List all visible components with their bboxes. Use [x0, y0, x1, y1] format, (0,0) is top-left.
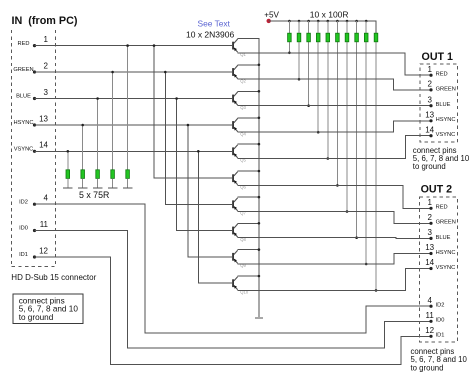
svg-text:BLUE: BLUE: [436, 102, 451, 108]
node junction input line/R13: [96, 97, 99, 100]
node junction input line/R15: [126, 44, 129, 47]
wire BLUE tap down to Q8 base: [177, 99, 233, 231]
node junction +5V bus/resistor: [365, 20, 368, 23]
node junction +5V bus/resistor: [307, 20, 310, 23]
svg-text:BLUE: BLUE: [436, 235, 451, 241]
node junction +5V bus/resistor: [346, 20, 349, 23]
wire GREEN tap down to Q7 base: [165, 72, 232, 204]
wire Q10 collector to ground rail: [238, 275, 259, 277]
wire Q8 emitter output to OUT2 pin 3 (BLUE): [238, 237, 431, 240]
svg-text:VSYNC: VSYNC: [436, 265, 456, 271]
ground (R14): [108, 187, 117, 189]
node junction +5V bus/resistor: [327, 20, 330, 23]
transistor Q9 2N3906 PNP: [232, 250, 246, 268]
svg-text:2: 2: [44, 61, 49, 70]
svg-text:1: 1: [427, 65, 432, 74]
svg-text:IN (from PC): IN (from PC): [12, 15, 78, 27]
node junction R6/output line: [336, 184, 339, 187]
svg-text:3: 3: [427, 95, 432, 104]
wire GREEN input from IN pin 2 to Q base: [35, 71, 233, 73]
svg-text:3: 3: [44, 88, 49, 97]
node junction +5V bus/resistor: [288, 20, 291, 23]
resistor R1 100R: [288, 21, 292, 53]
resistor R10 100R: [374, 33, 378, 290]
connector OUT 1 dashed outline: [420, 64, 458, 142]
resistor R6 100R: [336, 21, 340, 185]
svg-text:to ground: to ground: [19, 313, 54, 322]
svg-text:10 x 2N3906: 10 x 2N3906: [186, 29, 234, 39]
svg-text:GREEN: GREEN: [436, 220, 456, 226]
wire Q8 collector to ground rail: [238, 222, 259, 224]
node junction HSYNC/tap: [187, 124, 190, 127]
svg-text:3: 3: [427, 228, 432, 237]
node junction input line/R11: [67, 150, 70, 153]
svg-text:BLUE: BLUE: [16, 94, 31, 100]
svg-text:VSYNC: VSYNC: [14, 147, 34, 153]
wire Q10 emitter output to OUT2 pin 14 (VSYNC): [238, 269, 431, 291]
resistor R15 75R termination: [126, 46, 130, 188]
node junction rail/Q7 collector: [258, 196, 261, 199]
svg-text:ID1: ID1: [436, 333, 445, 339]
resistor R7 100R: [345, 21, 349, 212]
svg-text:RED: RED: [436, 72, 448, 78]
wire ID0 net: IN pin 11 to OUT2 pin 11: [35, 231, 432, 349]
svg-text:See Text: See Text: [198, 19, 231, 29]
svg-text:ID0: ID0: [19, 226, 28, 232]
svg-text:HSYNC: HSYNC: [14, 120, 34, 126]
wire Q4 collector to ground rail: [238, 117, 259, 119]
wire Q3 emitter output to OUT1 pin 3 (BLUE): [238, 105, 431, 107]
resistor R5 100R: [326, 21, 330, 159]
svg-text:to ground: to ground: [413, 162, 446, 171]
svg-text:RED: RED: [436, 205, 448, 211]
transistor Q8 2N3906 PNP: [232, 224, 246, 242]
ground (rail): [255, 317, 263, 319]
wire Q2 collector to ground rail: [238, 64, 259, 66]
svg-text:2: 2: [427, 213, 432, 222]
resistor R13 75R termination: [96, 99, 100, 189]
node junction +5V bus/resistor: [355, 20, 358, 23]
svg-text:GREEN: GREEN: [13, 67, 33, 73]
wire Q1 collector to ground rail (rail top corner): [238, 38, 259, 317]
wire VSYNC input from IN pin 14 to Q base: [35, 150, 233, 152]
node junction R8/output line: [355, 236, 358, 239]
svg-text:11: 11: [426, 311, 435, 320]
resistor R2 100R: [297, 21, 301, 79]
svg-text:10 x 100R: 10 x 100R: [310, 10, 349, 20]
resistor R11 75R termination: [66, 151, 70, 188]
wire Q4 emitter output to OUT1 pin 13 (HSYNC): [238, 121, 431, 132]
node junction R1/output line: [288, 52, 291, 55]
transistor Q10 2N3906 PNP: [232, 277, 249, 295]
node junction R4/output line: [317, 131, 320, 134]
wire Q1 emitter output to OUT1 pin 1 (RED): [238, 53, 431, 75]
node junction rail/Q5 collector: [258, 143, 261, 146]
wire Q7 emitter output to OUT2 pin 2 (GREEN): [238, 212, 431, 224]
node junction rail/Q10 collector: [258, 275, 261, 278]
connector J1 IN HD D-Sub 15 dashed outline: [12, 30, 56, 267]
node junction RED/tap: [153, 44, 156, 47]
resistor R3 100R: [307, 21, 311, 106]
wire Q9 emitter output to OUT2 pin 13 (HSYNC): [238, 254, 431, 265]
svg-text:4: 4: [44, 194, 49, 203]
wire VSYNC tap down to Q10 base: [198, 151, 232, 283]
svg-text:13: 13: [39, 114, 48, 123]
svg-text:+5V: +5V: [264, 10, 279, 19]
svg-text:ID2: ID2: [19, 199, 28, 205]
svg-text:13: 13: [425, 110, 434, 119]
node junction rail/Q3 collector: [258, 90, 261, 93]
node junction +5V bus/resistor: [317, 20, 320, 23]
transistor Q6 2N3906 PNP: [232, 172, 246, 190]
transistor Q3 2N3906 PNP: [232, 92, 246, 110]
node junction rail/Q8 collector: [258, 222, 261, 225]
svg-text:HD D-Sub 15 connector: HD D-Sub 15 connector: [11, 273, 96, 282]
wire Q7 collector to ground rail: [238, 196, 259, 198]
resistor R9 100R: [364, 21, 368, 264]
node junction R5/output line: [327, 157, 330, 160]
connector OUT 2 dashed outline: [420, 197, 458, 342]
node junction GREEN/tap: [164, 71, 167, 74]
transistor Q7 2N3906 PNP: [232, 198, 246, 216]
wire ID1 net: IN pin 12 to OUT2 pin 12: [35, 257, 432, 365]
wire +5V bus: [269, 21, 376, 33]
node junction +5V bus/resistor: [336, 20, 339, 23]
svg-text:HSYNC: HSYNC: [436, 250, 456, 256]
node junction R2/output line: [298, 78, 301, 81]
node junction +5V bus/resistor: [298, 20, 301, 23]
node junction rail/Q6 collector: [258, 170, 261, 173]
svg-text:ID2: ID2: [436, 303, 445, 309]
node junction input line/R12: [81, 124, 84, 127]
wire Q6 emitter output to OUT2 pin 1 (RED): [238, 185, 431, 208]
svg-text:VSYNC: VSYNC: [436, 132, 456, 138]
svg-text:HSYNC: HSYNC: [436, 117, 456, 123]
wire HSYNC input from IN pin 13 to Q base: [35, 124, 233, 126]
node junction rail/Q9 collector: [258, 248, 261, 251]
transistor Q2 2N3906 PNP: [232, 65, 246, 83]
svg-text:11: 11: [40, 220, 49, 229]
resistor R8 100R: [355, 21, 359, 238]
svg-text:12: 12: [425, 326, 434, 335]
wire Q5 collector to ground rail: [238, 143, 259, 145]
wire HSYNC tap down to Q9 base: [188, 125, 232, 257]
svg-text:4: 4: [427, 296, 432, 305]
wire RED tap down to Q6 base: [154, 46, 232, 179]
node junction R3/output line: [307, 104, 310, 107]
transistor Q4 2N3906 PNP: [232, 118, 246, 136]
svg-text:ID1: ID1: [19, 252, 28, 258]
wire Q5 emitter output to OUT1 pin 14 (VSYNC): [238, 136, 431, 159]
node junction R10/output line: [375, 289, 378, 292]
svg-text:2: 2: [427, 80, 432, 89]
resistor R14 75R termination: [111, 72, 115, 188]
wire Q3 collector to ground rail: [238, 90, 259, 92]
node junction input line/R14: [111, 71, 114, 74]
resistor R4 100R: [316, 21, 320, 132]
node junction VSYNC/tap: [197, 150, 200, 153]
svg-text:14: 14: [425, 125, 434, 134]
svg-text:ID0: ID0: [436, 318, 445, 324]
node junction rail/Q4 collector: [258, 117, 261, 120]
svg-text:5 x 75R: 5 x 75R: [79, 190, 109, 200]
wire Q9 collector to ground rail: [238, 249, 259, 251]
wire RED input from IN pin 1 to Q base: [35, 45, 233, 47]
node junction R9/output line: [365, 263, 368, 266]
svg-text:1: 1: [44, 35, 49, 44]
ground (R12): [78, 187, 87, 189]
transistor Q1 2N3906 PNP: [232, 39, 246, 57]
wire Q6 collector to ground rail: [238, 170, 259, 172]
svg-text:13: 13: [425, 243, 434, 252]
wire Q2 emitter output to OUT1 pin 2 (GREEN): [238, 79, 431, 90]
resistor R12 75R termination: [81, 125, 85, 188]
ground (R11): [63, 187, 72, 189]
ground (R13): [93, 187, 102, 189]
ground (R15): [123, 187, 132, 189]
svg-text:OUT 2: OUT 2: [421, 184, 453, 196]
wire ID2 net: IN pin 4 to OUT2 pin 4: [35, 204, 432, 333]
svg-text:to ground: to ground: [411, 363, 444, 372]
svg-text:12: 12: [39, 246, 48, 255]
node junction BLUE/tap: [175, 97, 178, 100]
svg-text:1: 1: [427, 198, 432, 207]
node junction R7/output line: [346, 210, 349, 213]
svg-text:RED: RED: [17, 41, 29, 47]
wire BLUE input from IN pin 3 to Q base: [35, 98, 233, 100]
svg-text:14: 14: [425, 258, 434, 267]
node junction rail/Q2 collector: [258, 64, 261, 67]
note box connect pins to ground (IN): [13, 294, 83, 324]
transistor Q5 2N3906 PNP: [232, 145, 246, 163]
svg-text:OUT 1: OUT 1: [422, 51, 454, 63]
svg-text:14: 14: [39, 141, 48, 150]
svg-text:GREEN: GREEN: [436, 86, 456, 92]
